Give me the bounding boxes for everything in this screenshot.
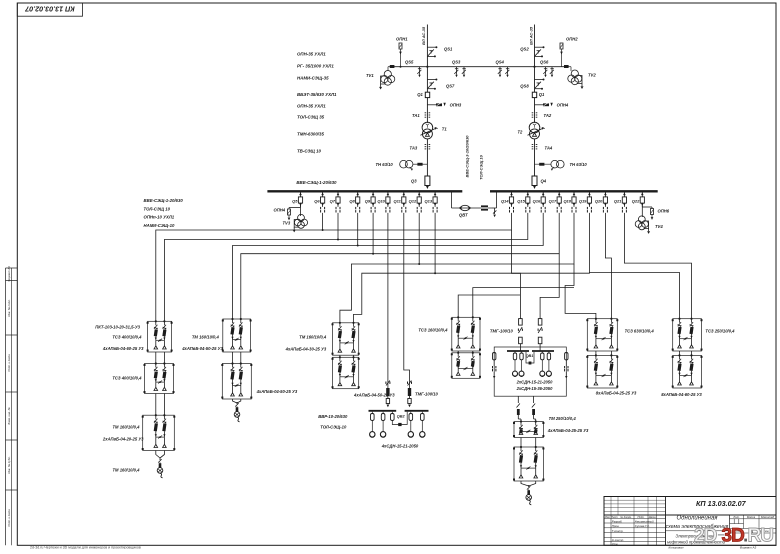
svg-text:Q14: Q14 [501, 198, 509, 203]
svg-text:2d-3d.ru Чертежи и 3D модели д: 2d-3d.ru Чертежи и 3D модели для инженер… [30, 546, 141, 549]
svg-text:ТV3: ТV3 [283, 221, 291, 226]
feeder breaker Q8 [349, 192, 359, 212]
svg-text:QВТ: QВТ [459, 213, 468, 218]
disconnector QS6 [540, 60, 554, 78]
svg-text:ТН 63/10: ТН 63/10 [376, 162, 394, 167]
substation KTP2 level1 [222, 318, 252, 352]
motor feeders and motors 2xSDN [513, 351, 552, 376]
circuit breaker Q3 [411, 176, 430, 189]
svg-text:Пров.: Пров. [612, 524, 620, 528]
svg-text:Q7: Q7 [330, 198, 336, 203]
svg-text:ВВЕ-СЭЩ-3-10/20/630: ВВЕ-СЭЩ-3-10/20/630 [465, 135, 470, 178]
svg-text:8хАПвБ-04-60-25 У3: 8хАПвБ-04-60-25 У3 [661, 392, 702, 397]
svg-text:ТСЗ 400/10/0,4: ТСЗ 400/10/0,4 [112, 376, 142, 381]
voltage transformer TN 63/10 (right) [535, 160, 588, 170]
watermark 2D-3D.RU [694, 526, 773, 547]
svg-text:3D: 3D [722, 526, 745, 547]
svg-text:ВВЕ-СЭЩ-1-20/630: ВВЕ-СЭЩ-1-20/630 [296, 180, 337, 185]
svg-text:ОПН1: ОПН1 [396, 37, 408, 42]
wire Q19 to substation6 column1 [589, 273, 679, 319]
fuse on TV1 tap [390, 65, 395, 68]
svg-text:ОПН3: ОПН3 [450, 103, 462, 108]
svg-text:Т1: Т1 [442, 127, 448, 132]
svg-text:ВБЭТ-35/630 УХЛ1: ВБЭТ-35/630 УХЛ1 [297, 92, 337, 97]
transformer TM end of chain2 [233, 399, 241, 422]
svg-text:Q5: Q5 [292, 198, 298, 203]
svg-text:4хАПвБ-04-60-25 У3: 4хАПвБ-04-60-25 У3 [102, 346, 144, 351]
svg-text:ТСЗ 400/10/0,4: ТСЗ 400/10/0,4 [112, 335, 142, 340]
svg-text:Утв.: Утв. [612, 542, 619, 546]
substation KTP6 level1 [672, 318, 703, 352]
svg-text:Однолинейная: Однолинейная [676, 515, 718, 522]
wire to substation4 column2 [473, 288, 574, 318]
wire T2 to bus [534, 139, 536, 186]
disconnector QS4 [496, 60, 510, 78]
title block [604, 497, 776, 550]
feeder breaker Q21 [614, 192, 627, 212]
equipment list labels 10kV [144, 198, 184, 228]
wire Q8-Q16 run to substation2 column1 [233, 213, 544, 319]
wire Q17 to motor substation column2 [540, 254, 559, 319]
substation KTP7 level2 [513, 446, 544, 481]
svg-text:2хСДН-15-36-2050: 2хСДН-15-36-2050 [516, 386, 553, 391]
motor bus section left VVR [369, 410, 397, 412]
surge arrester OPN4 tap (transformer2) [535, 103, 569, 108]
svg-text:Подп. и дата: Подп. и дата [7, 354, 11, 372]
svg-text:ТОЛ-СЭЩ 35: ТОЛ-СЭЩ 35 [297, 115, 325, 120]
svg-text:Q12: Q12 [409, 198, 417, 203]
substation KTP2 level2 [221, 362, 252, 399]
equipment list labels 35kV [297, 52, 337, 154]
substation KTP1 level2 [144, 362, 175, 393]
feeder breaker Q7 [330, 192, 340, 212]
svg-text:4хСДН-15-21-2050: 4хСДН-15-21-2050 [381, 443, 419, 448]
svg-text:4хАПвБ-04-50-25 У3: 4хАПвБ-04-50-25 У3 [256, 389, 298, 394]
disconnector QS8 [520, 79, 544, 90]
substation KTP3 level2 [332, 356, 360, 389]
motor substation side column left [493, 352, 496, 379]
svg-text:Q3: Q3 [411, 179, 417, 184]
svg-text:ВВР-10-20/630: ВВР-10-20/630 [318, 414, 348, 419]
svg-text:ОПН2: ОПН2 [566, 37, 578, 42]
svg-text:ТОЛ-СЭЩ-10: ТОЛ-СЭЩ-10 [320, 425, 347, 430]
svg-text:4хАПвБ-04-25-25 У3: 4хАПвБ-04-25-25 У3 [547, 428, 589, 433]
wire KTP7 level1-level2 [520, 438, 522, 448]
motor bus labels [318, 414, 348, 430]
wire Q13-Q19 run to substation3 column2 [354, 213, 590, 323]
35kV tie line [392, 66, 569, 68]
svg-text:Q9: Q9 [365, 198, 371, 203]
svg-text:QВ2: QВ2 [397, 415, 406, 419]
svg-text:Неизвестный: Неизвестный [635, 519, 654, 523]
wire Q12-Q18 run to substation3 column1 [340, 213, 574, 323]
svg-text:ТV4: ТV4 [655, 224, 663, 229]
motor substation internal bus right [532, 350, 554, 352]
feeder breaker Q5 [292, 192, 302, 207]
feeder breaker Q22 [632, 192, 645, 207]
svg-text:ТА3: ТА3 [410, 146, 418, 151]
wire T1 to bus [426, 139, 428, 186]
svg-text:ТМГ-100/10: ТМГ-100/10 [490, 329, 514, 334]
svg-text:Инв. № подл.: Инв. № подл. [7, 299, 11, 317]
motor substation feed fuses TMG-100/10 [490, 319, 542, 347]
svg-text:Подп. и дата: Подп. и дата [7, 509, 11, 527]
svg-text:ПКТ-103-10-20-31,5-У3: ПКТ-103-10-20-31,5-У3 [95, 325, 140, 330]
voltage transformer TV3 [283, 208, 308, 233]
svg-text:QS2: QS2 [520, 46, 529, 51]
feeder breaker Q10 [377, 192, 390, 212]
circuit breaker Q1 (right) [532, 92, 545, 98]
wire KTP6 level1-level2 [679, 351, 681, 355]
feeder breaker Q15 [517, 192, 530, 212]
surge arrester OPN3 tap [427, 103, 461, 108]
wire Q7-Q15 run to substation1 column2 [164, 213, 527, 321]
svg-text:Q10: Q10 [377, 198, 385, 203]
svg-text:2хАПвБ-04-20-25 У3: 2хАПвБ-04-20-25 У3 [102, 437, 144, 442]
svg-text:Q8: Q8 [349, 198, 355, 203]
wires motor box to KTP7 [517, 396, 536, 421]
feeder breaker Q17 [549, 192, 562, 212]
current transformer TA4 [532, 145, 553, 151]
motor substation enclosure box [494, 347, 566, 396]
surge arrester OPN4 on bus section 1 [274, 204, 301, 221]
svg-text:КП 13.03.02.07: КП 13.03.02.07 [696, 499, 747, 508]
svg-text:ТА1: ТА1 [412, 113, 420, 118]
substation KTP5 level1 [586, 318, 618, 352]
svg-text:ОПН-35 УХЛ1: ОПН-35 УХЛ1 [297, 104, 326, 109]
wire Q11 to motor bus right feed [404, 213, 410, 378]
current transformer TA3 [410, 145, 431, 151]
voltage transformer TV2 [568, 67, 597, 89]
10kV busbar section 1 [267, 190, 462, 192]
svg-text:8хАПвБ-04-25-25 У3: 8хАПвБ-04-25-25 У3 [596, 391, 637, 396]
svg-text:Q13: Q13 [425, 198, 433, 203]
svg-text:ТН 63/10: ТН 63/10 [570, 162, 588, 167]
current transformer TA2 [532, 113, 552, 118]
transformer end of chain KTP7 [521, 481, 536, 505]
voltage transformer TN 63/10 (left) [376, 160, 428, 170]
svg-text:ТМ 160/10/0,4: ТМ 160/10/0,4 [299, 335, 327, 340]
svg-text:Q16: Q16 [533, 198, 541, 203]
svg-text:QS3: QS3 [452, 60, 461, 65]
svg-text:Изм.: Изм. [605, 515, 611, 519]
wire Q14 to motor substation column1 [512, 230, 521, 319]
svg-text:ТМ 250/10/0,4: ТМ 250/10/0,4 [549, 416, 577, 421]
svg-text:Q21: Q21 [614, 198, 622, 203]
10kV busbar section 2 [490, 190, 658, 192]
feeder breaker Q14 [501, 192, 514, 212]
svg-text:QS4: QS4 [496, 60, 505, 65]
svg-text:Q17: Q17 [549, 198, 557, 203]
svg-text:ТМ 160/10/0,4: ТМ 160/10/0,4 [192, 335, 220, 340]
surge arrester OPN2 [560, 37, 578, 67]
svg-text:QS1: QS1 [444, 46, 453, 51]
svg-text:Q15: Q15 [517, 198, 525, 203]
wire KTP5 level1-level2 [595, 351, 597, 355]
motor bus feed 2 switch-fuse TMG-100/10 [408, 378, 439, 407]
feeder breaker Q20 [595, 192, 608, 212]
svg-text:Q4: Q4 [541, 179, 547, 184]
wire KTP1 level2-level3 [155, 394, 157, 416]
svg-text:Взам. инв. №: Взам. инв. № [7, 407, 11, 424]
substation KTP3 level1 [332, 322, 360, 356]
svg-text:КП 13.03.02.07: КП 13.03.02.07 [24, 5, 75, 14]
svg-text:Q6: Q6 [314, 198, 320, 203]
substation KTP4 level1 [451, 316, 481, 351]
disconnector QS7 [427, 79, 455, 90]
motor substation side column right [565, 353, 568, 379]
top-left inverted stamp KP 13.03.02.07 [17, 3, 82, 16]
svg-text:ВЛ АС-35: ВЛ АС-35 [528, 26, 533, 45]
wire Q10 to motor bus left feed [387, 213, 389, 378]
svg-text:ТV2: ТV2 [588, 73, 596, 78]
svg-text:ТV1: ТV1 [366, 73, 374, 78]
svg-text:ТА2: ТА2 [544, 113, 552, 118]
svg-text:Q19: Q19 [579, 198, 587, 203]
disconnector QS1 [427, 46, 453, 57]
svg-text:Разраб.: Разраб. [612, 519, 623, 523]
wire to substation5 column1 [565, 264, 596, 319]
voltage transformer TV4 [635, 207, 663, 234]
surge arrester OPN6 on bus section 2 [642, 204, 669, 220]
svg-text:ТМ 160/10/0,4: ТМ 160/10/0,4 [112, 468, 140, 473]
feeder breaker Q11 [394, 192, 406, 212]
substation KTP2 level1 labels [181, 335, 223, 352]
svg-text:ТОЛ-СЭЩ 10: ТОЛ-СЭЩ 10 [144, 206, 171, 211]
substation KTP1 level1 [147, 320, 173, 352]
svg-text:ТСЗ 160/10/0,4: ТСЗ 160/10/0,4 [418, 328, 448, 333]
feeder breaker Q16 [533, 192, 546, 212]
wire Q9-Q17 run to substation2 column2 [241, 213, 559, 319]
svg-text:РГ- 35/1000 УХЛ1: РГ- 35/1000 УХЛ1 [297, 64, 334, 69]
feeder breaker Q6 [314, 192, 324, 212]
svg-text:Масса: Масса [747, 515, 756, 519]
feeder breaker Q19 [579, 192, 592, 212]
svg-text:QS5: QS5 [405, 60, 414, 65]
svg-text:ТМН-6300/35: ТМН-6300/35 [297, 132, 324, 137]
substation KTP5 level2 [586, 354, 618, 388]
substation KTP3 level1 labels [285, 335, 327, 352]
svg-text:ОПНп-10 УХЛ1: ОПНп-10 УХЛ1 [144, 215, 175, 220]
motor substation labels 2xSDN [516, 380, 553, 392]
feeder breaker Q13 [425, 192, 438, 212]
disconnector QS3 [452, 60, 466, 78]
left margin attribute strip [6, 266, 18, 545]
svg-text:ТСЗ 630/10/0,4: ТСЗ 630/10/0,4 [625, 329, 655, 334]
svg-text:4хАПвБ-04-30-25 У3: 4хАПвБ-04-30-25 У3 [285, 347, 327, 352]
svg-text:Масштаб: Масштаб [761, 515, 774, 519]
power transformer T2 [518, 122, 545, 139]
feeder breaker Q18 [563, 192, 576, 212]
svg-text:ОПН4: ОПН4 [557, 103, 569, 108]
svg-text:ТСЗ 250/10/0,4: ТСЗ 250/10/0,4 [705, 329, 735, 334]
svg-text:Q1: Q1 [539, 92, 545, 97]
circuit breaker Q1 (left) [417, 92, 429, 98]
current transformer TA1 [412, 113, 430, 118]
svg-text:2хСДН-15-21-2050: 2хСДН-15-21-2050 [516, 380, 553, 385]
svg-text:Q1: Q1 [417, 92, 423, 97]
svg-text:ТМ 160/10/0,4: ТМ 160/10/0,4 [112, 425, 140, 430]
svg-text:Формат А3: Формат А3 [7, 266, 11, 282]
incoming overhead line 1 VL AS-35 (left) [421, 25, 427, 123]
svg-text:Q18: Q18 [563, 198, 571, 203]
svg-text:ТОЛ-СЭЩ 10: ТОЛ-СЭЩ 10 [479, 154, 484, 179]
svg-text:НАМИ-СЭЩ-10: НАМИ-СЭЩ-10 [144, 223, 175, 228]
svg-text:QS8: QS8 [520, 84, 529, 89]
feeder breaker Q12 [409, 192, 422, 212]
incoming overhead line 2 VL AS-35 (right) [528, 25, 534, 123]
svg-text:Сухова Г.К.: Сухова Г.К. [635, 524, 650, 528]
transformer TM 160 end of chain1 [112, 451, 164, 478]
svg-text:QS6: QS6 [540, 60, 549, 65]
svg-text:ТВ-СЭЩ 10: ТВ-СЭЩ 10 [297, 149, 322, 154]
svg-text:ОПН-35 УХЛ1: ОПН-35 УХЛ1 [297, 52, 326, 57]
circuit breaker Q4 [532, 176, 547, 189]
svg-text:ОПН6: ОПН6 [658, 209, 670, 214]
motor substation internal bus left [507, 350, 529, 352]
svg-text:№ докум.: № докум. [620, 515, 632, 519]
svg-text:Т2: Т2 [518, 130, 524, 135]
tie breaker QB2 [391, 412, 408, 426]
wire KTP3 level1-level2 [339, 355, 341, 357]
voltage transformer TV1 [366, 67, 395, 90]
wire Q20 to substation5 column2 [605, 213, 611, 319]
svg-text:QS7: QS7 [446, 84, 455, 89]
svg-text:Лист: Лист [610, 515, 619, 519]
motor bus feed 1 switch-fuse TMG-100/10 [386, 378, 390, 407]
svg-text:Подп.: Подп. [638, 515, 645, 519]
wire KTP1 level1-level2 [155, 352, 157, 364]
svg-text:Лит.: Лит. [732, 515, 740, 519]
wire KTP2 level1-level2 [232, 352, 234, 364]
wire Q6-Q14 run to substation1 column1 [156, 213, 512, 321]
feeder breaker Q9 [365, 192, 375, 212]
svg-text:НАМИ-СЭЩ-35: НАМИ-СЭЩ-35 [297, 76, 329, 81]
svg-text:ВЛ АС-35: ВЛ АС-35 [421, 26, 426, 45]
bus coupler QVT [452, 192, 497, 217]
svg-text:ТМГ-100/10: ТМГ-100/10 [415, 392, 439, 397]
svg-text:Дата: Дата [648, 515, 656, 519]
svg-text:QВ1: QВ1 [526, 354, 534, 358]
svg-text:Т.контр.: Т.контр. [612, 529, 624, 533]
surge arrester OPN1 [396, 37, 408, 68]
substation KTP1 level3 [142, 414, 176, 451]
disconnector QS2 [520, 46, 544, 57]
motor bus section right [405, 410, 429, 412]
svg-text:Q22: Q22 [632, 198, 640, 203]
motor feeders on motor bus [370, 412, 425, 438]
svg-text:Q20: Q20 [595, 198, 603, 203]
svg-text:2D: 2D [694, 526, 717, 547]
substation KTP6 level2 [672, 354, 703, 388]
substation KTP1 level3 labels [102, 425, 144, 442]
svg-text:ТА4: ТА4 [545, 146, 553, 151]
fuse on TV2 tap [564, 65, 569, 68]
power transformer T1 [420, 122, 447, 139]
substation KTP7 level1 [513, 420, 544, 437]
svg-text:ВВЕ-СЭЩ-1-20/630: ВВЕ-СЭЩ-1-20/630 [144, 198, 184, 203]
disconnector QS5 [405, 60, 421, 78]
wire Q21 to substation6 column2 [624, 213, 691, 319]
wire to substation4 column1 [458, 295, 520, 317]
svg-text:4хАПвБ-04-50-25 У3: 4хАПвБ-04-50-25 У3 [181, 346, 223, 351]
svg-text:Q11: Q11 [394, 198, 402, 203]
substation KTP7 labels [547, 416, 589, 433]
svg-text:RU: RU [748, 526, 774, 547]
substation KTP4 level2 [451, 352, 481, 379]
svg-text:Инв. № дубл.: Инв. № дубл. [7, 456, 11, 473]
wire KTP4 level1-level2 [457, 351, 459, 353]
svg-text:ОПН4: ОПН4 [274, 208, 286, 213]
svg-text:Копировал: Копировал [669, 546, 684, 549]
tie breaker QB1 [526, 352, 534, 365]
substation KTP1 level1 labels [95, 325, 144, 352]
